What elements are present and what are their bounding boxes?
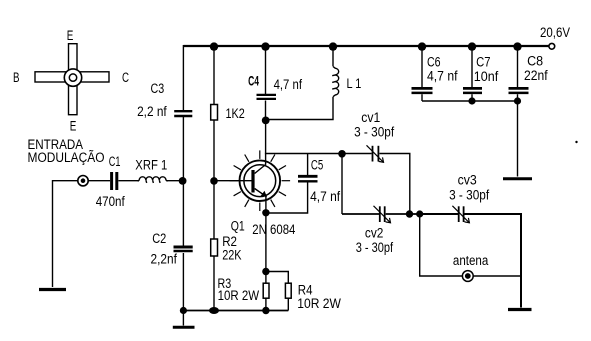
svg-text:XRF 1: XRF 1: [135, 158, 167, 173]
wire R3 to bottom rail: [265, 298, 267, 310]
wire rail to C4: [265, 46, 267, 94]
wire 1K2 to base node: [213, 120, 215, 181]
svg-text:3 - 30pf: 3 - 30pf: [356, 240, 394, 255]
Q1 collector stroke: [255, 165, 266, 174]
wire C8 to bypass rail: [517, 94, 519, 101]
svg-text:3 - 30pf: 3 - 30pf: [449, 188, 489, 203]
svg-text:B: B: [13, 70, 20, 85]
top supply rail: [183, 45, 549, 47]
Q1 base bar: [251, 170, 254, 193]
capacitor C1: [112, 172, 117, 190]
capacitor C3: [174, 111, 192, 116]
resistor R4: [285, 283, 291, 298]
svg-text:L 1: L 1: [347, 76, 362, 91]
svg-text:4,7 nf: 4,7 nf: [310, 189, 340, 204]
svg-text:C5: C5: [311, 158, 323, 173]
svg-text:antena: antena: [453, 253, 489, 268]
resistor 1K2: [211, 105, 218, 121]
wire C5 bottom to emitter node: [266, 183, 308, 214]
wire cv loop left vertical: [341, 154, 343, 215]
wire cv2 right: [386, 213, 410, 215]
wire L1 to C4/L1 node: [266, 97, 334, 120]
node bottom rail left: [180, 307, 187, 314]
wire R2 to bottom rail: [213, 256, 215, 311]
capacitor C5: [298, 176, 318, 181]
node C4/L1: [262, 117, 270, 125]
ground input: [39, 288, 66, 291]
ground bypass: [503, 177, 532, 180]
svg-text:cv1: cv1: [361, 110, 380, 125]
svg-text:22nf: 22nf: [524, 68, 548, 83]
wire rail to L1: [332, 46, 334, 66]
svg-text:C: C: [122, 70, 129, 85]
node rail/L1: [329, 42, 337, 50]
node C7 bottom: [468, 97, 475, 104]
wire base node to R2: [213, 181, 215, 239]
node R3 bottom: [262, 307, 269, 314]
wire C7 to bypass rail: [471, 94, 473, 101]
svg-text:E: E: [67, 28, 74, 43]
capacitor C2: [174, 247, 193, 251]
resistor R2: [211, 239, 218, 256]
svg-text:cv2: cv2: [365, 225, 384, 240]
trimmer cv1: [367, 145, 384, 162]
capacitor C4: [257, 95, 277, 99]
capacitor C7: [463, 88, 482, 93]
wire C4 to collector node: [265, 101, 267, 121]
wire cv3 left: [420, 213, 458, 215]
wire cv2 left: [342, 213, 379, 215]
svg-text:C4: C4: [248, 73, 259, 88]
wire between nodes: [410, 213, 420, 215]
trimmer cv3: [452, 206, 469, 223]
node collector/cv1: [338, 150, 346, 158]
wire left bus top segment: [182, 45, 184, 110]
inductor L1: [332, 67, 338, 97]
wire left bus middle segment: [182, 117, 184, 246]
wire collector: [265, 120, 267, 165]
node rail/C6: [418, 42, 426, 50]
wire bottom rail to ground: [182, 311, 184, 326]
svg-text:C8: C8: [527, 54, 543, 69]
svg-text:4,7 nf: 4,7 nf: [274, 77, 303, 92]
antenna terminal: [462, 271, 473, 282]
node base junction: [210, 177, 218, 185]
node R3/R4 top: [262, 268, 269, 275]
wire left bus bottom segment: [182, 253, 184, 311]
wire rail to C8: [517, 46, 519, 87]
svg-text:E: E: [70, 119, 77, 134]
svg-text:22K: 22K: [222, 248, 241, 263]
node antenna branch: [416, 210, 423, 217]
wire emitter to R3/R4 node: [265, 213, 267, 272]
wire bypass to ground: [517, 101, 519, 177]
wire C6 to bypass rail: [421, 94, 423, 101]
svg-text:MODULAÇÃO: MODULAÇÃO: [28, 150, 105, 165]
resistor R3: [263, 283, 269, 298]
svg-text:3 - 30pf: 3 - 30pf: [354, 125, 394, 140]
Q1 emitter stroke: [255, 189, 266, 197]
svg-text:C6: C6: [427, 54, 441, 69]
Q1 heat rays: [230, 150, 291, 211]
node C8 bottom: [514, 97, 521, 104]
wire antenna to right vertical: [473, 275, 521, 277]
svg-text:C3: C3: [151, 81, 165, 96]
supply terminal 20,6V: [549, 43, 555, 49]
capacitor C8: [509, 88, 529, 93]
svg-text:C7: C7: [476, 54, 490, 69]
inductor XRF1: [138, 177, 168, 183]
svg-text:2,2nf: 2,2nf: [151, 252, 178, 267]
ground output: [508, 308, 532, 311]
svg-text:cv3: cv3: [458, 173, 477, 188]
stray mark: [575, 141, 577, 143]
svg-text:10R 2W: 10R 2W: [218, 288, 260, 303]
wire C5 top tap: [307, 154, 309, 176]
transistor package outline (pinout diagram): [35, 44, 109, 115]
svg-text:C1: C1: [109, 154, 121, 169]
node rail/1K2: [210, 42, 218, 50]
node emitter junction: [262, 209, 269, 216]
svg-text:470nf: 470nf: [96, 194, 125, 209]
wire antenna loop left and bottom: [420, 214, 463, 276]
wire emitter: [265, 196, 267, 213]
node rail/C4: [261, 42, 269, 50]
transistor Q1: [239, 160, 280, 201]
wire cv1 right and down: [379, 154, 409, 215]
svg-text:10R 2W: 10R 2W: [297, 296, 341, 311]
svg-text:C2: C2: [152, 231, 166, 246]
wire C1 to XRF1: [118, 180, 139, 182]
svg-text:2N 6084: 2N 6084: [252, 222, 296, 237]
svg-text:4,7 nf: 4,7 nf: [427, 69, 458, 84]
node cv loop bottom: [406, 210, 413, 217]
wire rail to C7: [471, 46, 473, 87]
wire node to R4: [266, 272, 288, 284]
wire input terminal to ground drop: [53, 181, 78, 287]
trimmer cv2: [374, 206, 391, 223]
capacitor C6: [412, 88, 433, 93]
svg-text:1K2: 1K2: [226, 106, 245, 121]
node XRF1/C3/C2 junction: [179, 177, 187, 185]
wire collector node horizontal: [265, 153, 342, 155]
node rail/C8: [513, 42, 521, 50]
wire terminal to C1: [88, 180, 110, 182]
svg-text:20,6V: 20,6V: [540, 25, 570, 40]
svg-text:2,2 nf: 2,2 nf: [137, 104, 167, 119]
wire XRF1 to node: [166, 180, 183, 182]
wire cv1 left: [342, 153, 372, 155]
input terminal: [78, 176, 88, 186]
wire node to R3: [265, 272, 267, 284]
wire R4 to bottom rail: [287, 298, 289, 310]
wire bypass bottom rail: [422, 100, 518, 102]
svg-text:10nf: 10nf: [474, 69, 499, 84]
node R2 bottom: [209, 307, 219, 314]
wire cv3 right and down to ground: [464, 214, 521, 308]
wire rail to C6: [421, 46, 423, 87]
node rail/C7: [468, 42, 476, 50]
Q1 emitter arrowhead: [261, 191, 267, 197]
bottom rail: [183, 310, 288, 312]
wire rail to 1K2: [213, 46, 215, 105]
ground main: [173, 326, 195, 329]
svg-text:Q1: Q1: [231, 218, 245, 233]
wire base: [214, 180, 252, 182]
